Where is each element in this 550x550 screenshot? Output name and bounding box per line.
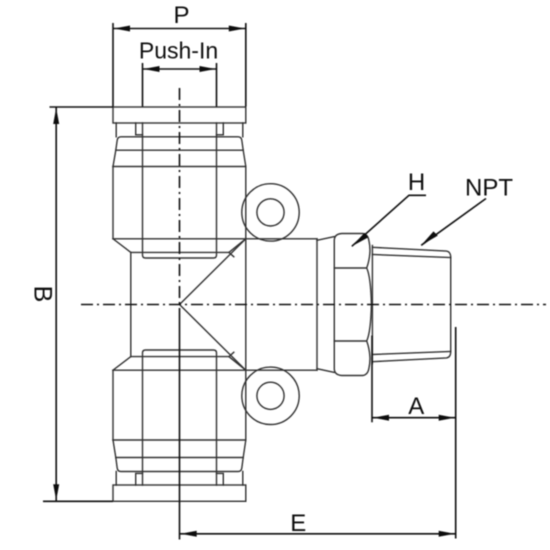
bottom body shoulder line xyxy=(113,439,246,441)
Push-In extension left xyxy=(142,63,144,107)
top body shoulder line xyxy=(113,166,246,168)
P extension right xyxy=(245,23,247,107)
svg-text:A: A xyxy=(408,393,424,420)
lower diagonal xyxy=(180,305,246,371)
hex nut outline xyxy=(334,234,371,376)
upper circle outer xyxy=(242,184,299,241)
top body sides xyxy=(113,167,246,239)
lower corner chamfer edge xyxy=(229,352,245,370)
A dimension line xyxy=(372,417,456,419)
thread bottom root xyxy=(372,352,450,355)
top bore outline xyxy=(143,123,217,258)
svg-text:NPT: NPT xyxy=(465,175,513,202)
top collet notches xyxy=(136,123,224,135)
A arrow right xyxy=(439,415,455,421)
Push-In extension right xyxy=(216,63,218,107)
Push-In dimension line xyxy=(143,68,217,70)
cone to hex top xyxy=(317,237,334,241)
upper circle inner xyxy=(257,199,284,226)
B arrow bottom xyxy=(53,484,59,500)
bottom left chamfer xyxy=(113,357,131,371)
A extension right / E extension right xyxy=(455,327,457,539)
H leader arrowhead xyxy=(352,233,369,247)
P arrow right xyxy=(229,26,245,32)
tee block upper line xyxy=(131,251,229,253)
thread bottom crest xyxy=(372,352,450,362)
bottom cap flare xyxy=(113,440,246,458)
top cap xyxy=(116,137,243,150)
H leader line xyxy=(352,195,426,246)
upper corner chamfer edge xyxy=(229,239,245,257)
E arrow left xyxy=(181,531,197,537)
thread tip edge xyxy=(450,258,452,352)
lower circle outer xyxy=(242,367,299,424)
bottom collet notches xyxy=(136,473,224,485)
bottom bore outline xyxy=(143,350,217,485)
hex face line upper xyxy=(334,267,366,269)
top body bottom line xyxy=(113,238,317,240)
svg-text:Push-In: Push-In xyxy=(139,38,218,64)
top cap parting line xyxy=(116,149,243,151)
NPT leader arrowhead xyxy=(421,231,438,245)
Push-In arrow right xyxy=(200,66,216,72)
B extension top xyxy=(50,106,114,108)
svg-text:B: B xyxy=(28,286,56,303)
Push-In arrow left xyxy=(144,66,160,72)
P dimension line xyxy=(113,28,246,30)
B arrow top xyxy=(53,108,59,124)
svg-text:E: E xyxy=(290,510,306,537)
bottom collet neck xyxy=(116,472,243,486)
svg-text:P: P xyxy=(173,2,189,29)
vertical centerline dash-dot xyxy=(179,88,181,318)
tee block lower line xyxy=(131,356,229,358)
E arrow right xyxy=(439,531,455,537)
bottom body top line xyxy=(113,369,317,371)
tee block right edge xyxy=(245,239,247,370)
top collet neck xyxy=(116,123,243,137)
hex face line lower xyxy=(334,340,366,342)
thread top root xyxy=(372,255,450,258)
branch rect right vertical xyxy=(316,239,318,370)
top cap flare xyxy=(113,150,246,166)
P arrow left xyxy=(114,26,130,32)
B dimension line xyxy=(55,107,57,501)
svg-text:H: H xyxy=(408,169,425,196)
vertical centerline solid / E extension xyxy=(179,318,181,540)
horizontal centerline dash-dot xyxy=(81,304,546,306)
NPT leader line xyxy=(421,199,486,246)
lower circle inner xyxy=(257,382,284,409)
B extension bottom xyxy=(43,500,113,502)
thread start edge xyxy=(371,246,373,364)
top left chamfer xyxy=(113,239,131,253)
tee block left edge xyxy=(130,252,132,356)
bottom flange xyxy=(113,485,246,501)
A arrow left xyxy=(373,415,389,421)
bottom cap xyxy=(116,458,243,472)
top flange xyxy=(113,107,246,123)
thread top crest xyxy=(372,247,450,257)
E dimension line xyxy=(180,533,456,535)
bottom body sides xyxy=(113,370,246,440)
A extension left xyxy=(371,336,373,423)
cone to hex bottom xyxy=(317,369,334,373)
upper diagonal xyxy=(180,239,246,305)
bottom cap parting line xyxy=(116,457,243,459)
P extension left xyxy=(112,23,114,107)
